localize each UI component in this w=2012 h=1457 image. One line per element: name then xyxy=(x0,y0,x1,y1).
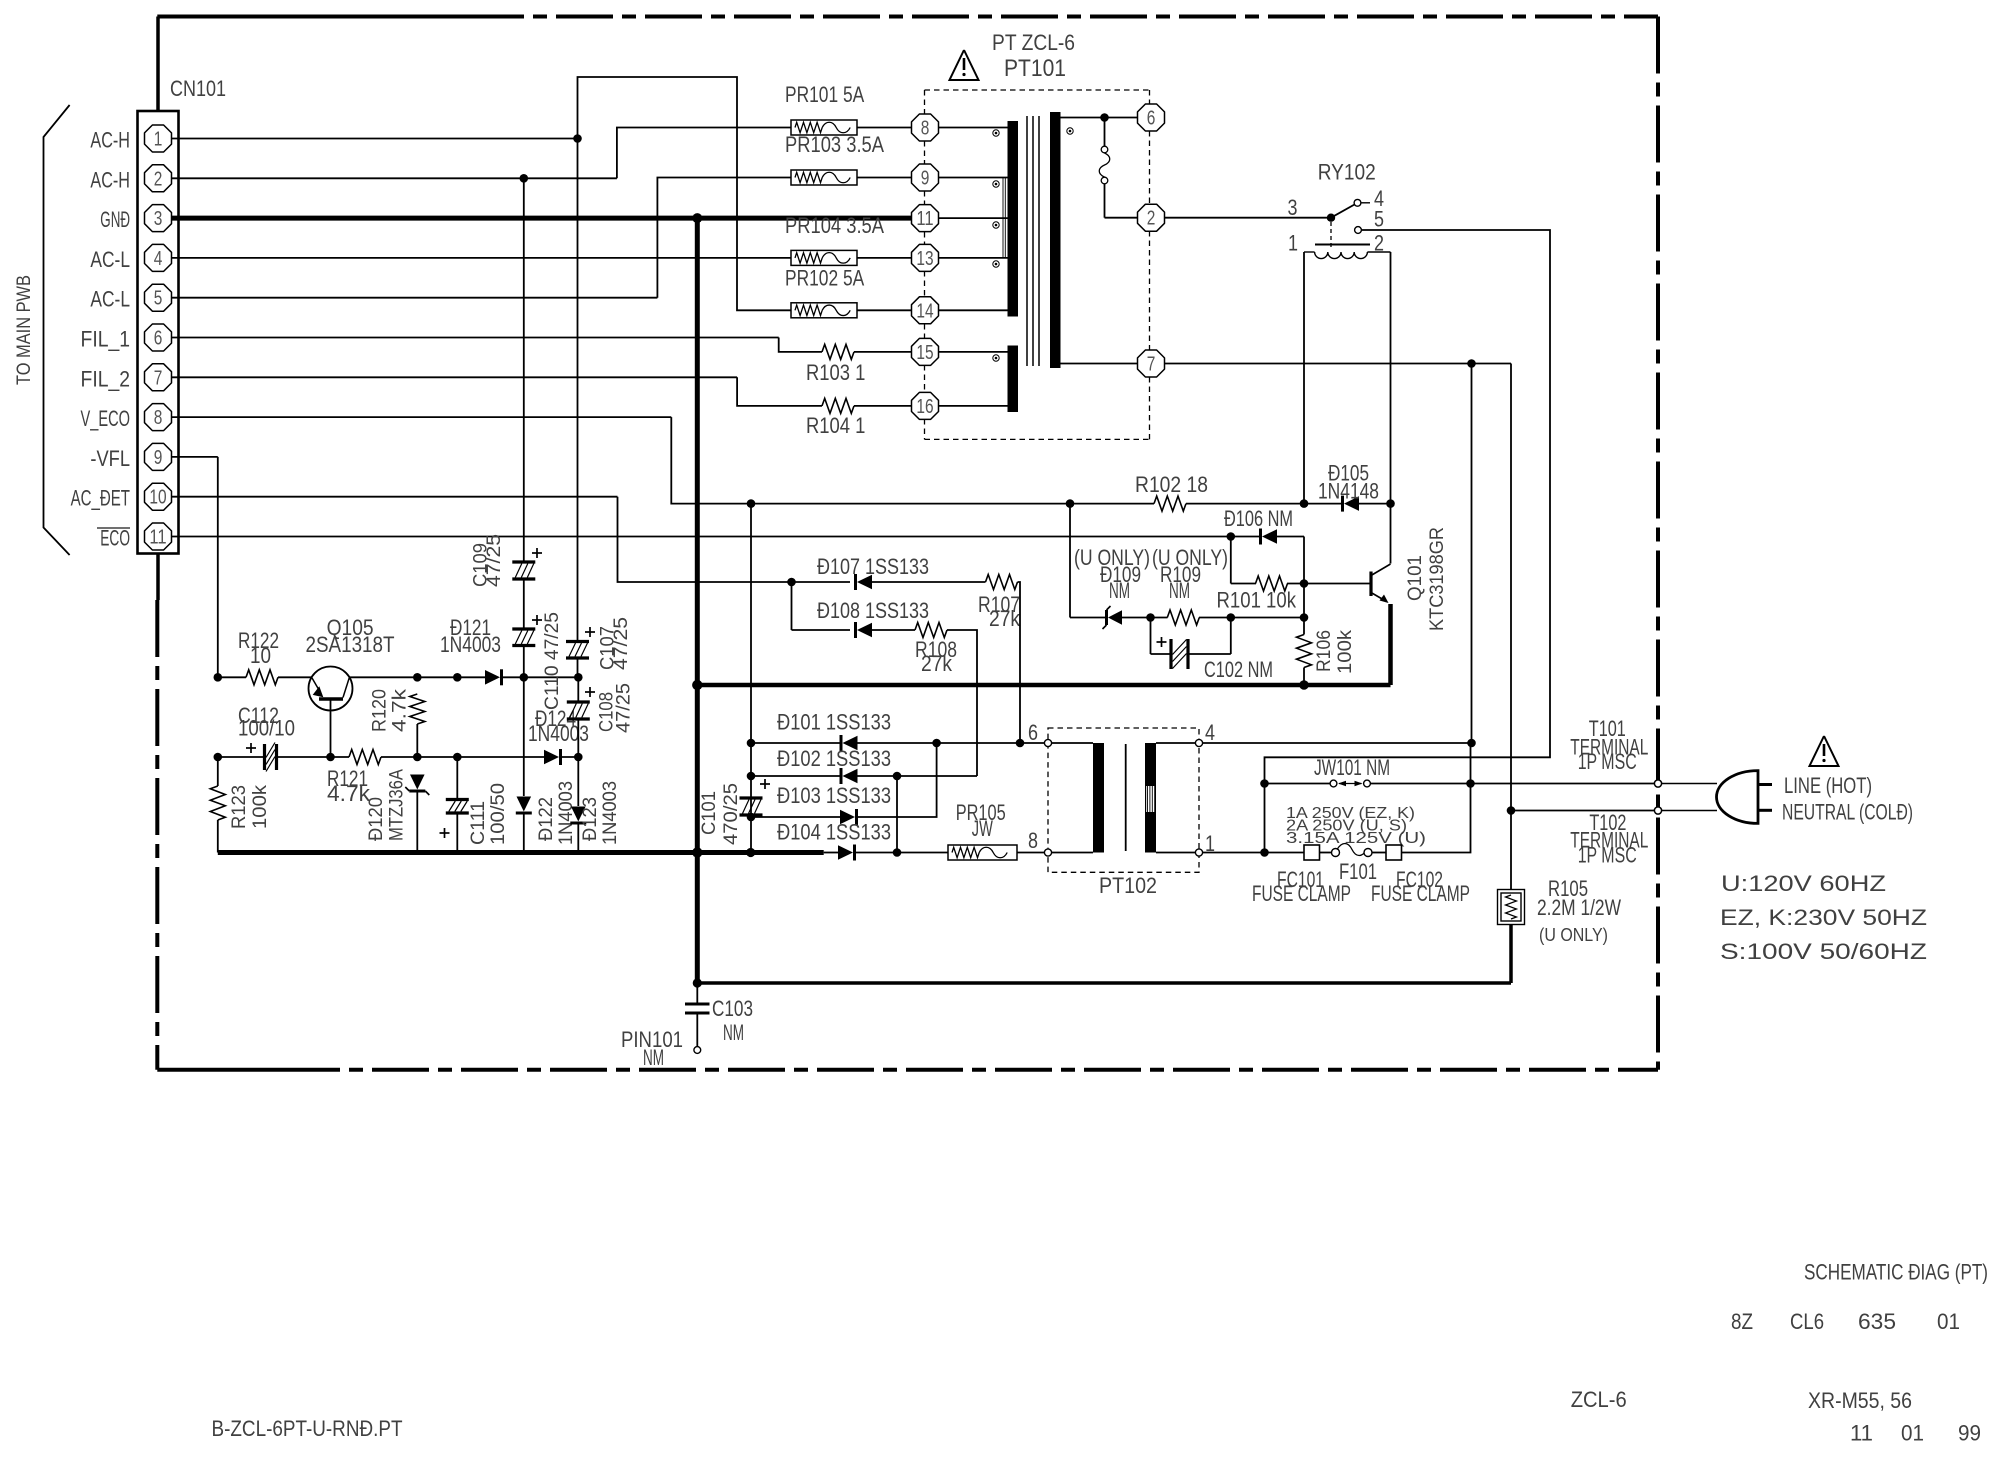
svg-text:1P MSC: 1P MSC xyxy=(1578,843,1637,868)
fuse PR102 5A xyxy=(791,303,857,318)
wire pin10 AC_DET row xyxy=(172,496,618,498)
svg-text:C111: C111 xyxy=(468,801,489,845)
svg-text:Q101: Q101 xyxy=(1405,555,1426,601)
svg-text:27k: 27k xyxy=(921,651,953,676)
CN101 pin 5 AC-L xyxy=(145,284,172,311)
node JW101 right xyxy=(1466,779,1475,788)
svg-text:XR-M55, 56: XR-M55, 56 xyxy=(1808,1388,1912,1413)
wire D104 up to D102 row xyxy=(896,776,898,853)
svg-text:V_ECO: V_ECO xyxy=(81,406,131,431)
svg-text:C110 47/25: C110 47/25 xyxy=(542,612,563,710)
wire pin8 V_ECO row xyxy=(172,416,672,418)
resistor R103 1 xyxy=(822,344,854,359)
wire pin2 AC-H row xyxy=(172,177,617,179)
fuse PR101 5A xyxy=(791,120,857,135)
resistor R105 2.2M 1/2W xyxy=(1510,811,1512,890)
node D105 left xyxy=(1300,499,1309,508)
node D107 tap xyxy=(787,578,796,587)
node base xyxy=(1300,579,1309,588)
svg-text:AC-H: AC-H xyxy=(90,167,130,192)
node D102 row xyxy=(747,772,756,781)
wire R102 row xyxy=(751,503,1154,505)
svg-text:ECO: ECO xyxy=(100,526,130,551)
wire R107 to D101 row xyxy=(1018,582,1021,743)
resistor R123 100k (vertical) xyxy=(210,786,225,820)
relay coil link dashed xyxy=(1330,222,1332,247)
svg-text:C103: C103 xyxy=(712,996,753,1021)
CN101 pin 1 AC-H xyxy=(145,125,172,152)
svg-text:10: 10 xyxy=(250,643,271,668)
relay contact arm to 4 xyxy=(1331,205,1355,218)
resistor R104 1 xyxy=(822,398,854,413)
node D105 right xyxy=(1386,499,1395,508)
svg-text:CL6: CL6 xyxy=(1790,1309,1824,1334)
svg-text:10: 10 xyxy=(149,487,166,509)
relay coil xyxy=(1315,244,1370,246)
svg-text:27k: 27k xyxy=(989,606,1021,631)
CN101 pin 4 AC-L xyxy=(145,244,172,271)
node D101 row xyxy=(747,739,756,748)
resistor R106 100k xyxy=(1297,635,1312,668)
svg-text:3: 3 xyxy=(1288,195,1298,220)
svg-text:100/10: 100/10 xyxy=(238,716,295,741)
svg-text:11: 11 xyxy=(149,527,166,549)
wire T102 row xyxy=(1511,810,1654,812)
wire pin9 vertical to R122/R123 xyxy=(217,457,219,677)
PT102 pin 4 xyxy=(1195,739,1202,746)
wire pin5 AC-L row xyxy=(172,297,658,299)
wire D107 to D108 row xyxy=(791,582,793,630)
svg-text:Đ122: Đ122 xyxy=(536,797,557,841)
svg-text:11: 11 xyxy=(1850,1421,1873,1446)
CN101 pin 8 V_ECO xyxy=(145,404,172,431)
svg-text:6: 6 xyxy=(154,328,163,350)
svg-text:NM: NM xyxy=(1169,578,1190,603)
fuse clamp FC101 xyxy=(1265,852,1305,854)
svg-text:8: 8 xyxy=(1028,828,1038,853)
ground bus mid (thick) xyxy=(697,683,1390,688)
PT101 pin 2 xyxy=(1138,204,1165,231)
svg-text:AC-L: AC-L xyxy=(90,247,130,272)
wire D106 row xyxy=(1227,532,1236,541)
svg-text:5: 5 xyxy=(154,288,163,310)
warning triangle PT101 xyxy=(950,50,979,80)
capacitor C107 47/25 xyxy=(577,139,579,642)
fuse clamp FC102 xyxy=(1386,845,1402,860)
wire pin7 row xyxy=(1061,363,1138,365)
svg-text:3: 3 xyxy=(154,208,163,230)
zener D120 MTZJ36A xyxy=(410,775,425,790)
svg-text:8: 8 xyxy=(154,407,163,429)
PT101 pin 7 xyxy=(1138,350,1165,377)
bracket TO MAIN PWB xyxy=(44,105,70,555)
capacitor C112 100/10 xyxy=(214,753,223,762)
CN101 pin 6 FIL_1 xyxy=(145,324,172,351)
svg-text:2.2M 1/2W: 2.2M 1/2W xyxy=(1537,895,1621,920)
svg-text:Đ120: Đ120 xyxy=(366,797,387,841)
CN101 pin 7 FIL_2 xyxy=(145,364,172,391)
PT101 pin 14 xyxy=(912,297,939,324)
resistor R102 18 xyxy=(1154,496,1186,511)
svg-text:Đ101 1SS133: Đ101 1SS133 xyxy=(777,710,891,735)
diode D105 1N4148 xyxy=(1344,496,1359,511)
svg-text:1: 1 xyxy=(154,129,163,151)
svg-text:Đ106 NM: Đ106 NM xyxy=(1224,506,1293,531)
resistor R120 4.7k (vertical) xyxy=(410,694,425,724)
capacitor C102 NM xyxy=(1150,618,1152,655)
svg-text:GNĐ: GNĐ xyxy=(100,207,130,232)
svg-text:99: 99 xyxy=(1958,1421,1981,1446)
svg-text:AC_ĐET: AC_ĐET xyxy=(71,486,130,511)
svg-text:8: 8 xyxy=(921,118,930,140)
PT101 pin 15 xyxy=(912,338,939,365)
diode D121 1N4003 xyxy=(485,670,500,685)
CN101 pin 9 -VFL xyxy=(145,443,172,470)
wire pin5 dogleg to PR103 xyxy=(657,178,791,298)
PT101 pin 9 xyxy=(912,164,939,191)
svg-text:100k: 100k xyxy=(1335,629,1356,674)
svg-text:7: 7 xyxy=(154,367,163,389)
svg-text:14: 14 xyxy=(916,300,933,322)
svg-text:KTC3198GR: KTC3198GR xyxy=(1427,527,1448,631)
svg-text:470/25: 470/25 xyxy=(721,783,742,845)
service jumper between pin6 and pin2 wire xyxy=(1104,118,1106,147)
svg-text:C102 NM: C102 NM xyxy=(1204,657,1273,682)
svg-text:FUSE CLAMP: FUSE CLAMP xyxy=(1371,881,1470,906)
svg-text:5: 5 xyxy=(1374,207,1384,232)
svg-text:Đ108 1SS133: Đ108 1SS133 xyxy=(817,598,929,623)
capacitor C108 47/25 xyxy=(577,677,579,702)
svg-text:1: 1 xyxy=(1288,231,1298,256)
svg-text:47/25: 47/25 xyxy=(484,534,505,587)
svg-text:EZ, K:230V 50HZ: EZ, K:230V 50HZ xyxy=(1720,905,1927,930)
resistor R121 4.7k xyxy=(331,756,350,758)
PT101 pin 13 xyxy=(912,244,939,271)
svg-text:FIL_1: FIL_1 xyxy=(81,327,131,352)
node JW101 left xyxy=(1260,779,1269,788)
svg-text:R106: R106 xyxy=(1314,630,1335,672)
fuse PR104 3.5A xyxy=(791,250,857,265)
svg-text:B-ZCL-6PT-U-RNĐ.PT: B-ZCL-6PT-U-RNĐ.PT xyxy=(212,1416,403,1441)
wires to plug xyxy=(1662,783,1717,785)
node C103 top xyxy=(693,978,702,987)
wire pin11 ECO row to D106 xyxy=(172,536,1231,538)
relay coil lead 1 xyxy=(1303,252,1305,504)
capacitor C110 47/25 xyxy=(523,579,525,629)
svg-text:6: 6 xyxy=(1028,720,1038,745)
wire D109 branch from R102 node xyxy=(1069,504,1071,618)
fuse PR103 3.5A xyxy=(791,170,857,185)
wire pin6 FIL_1 row xyxy=(172,337,779,339)
fuse F101 xyxy=(1320,852,1332,854)
svg-text:01: 01 xyxy=(1937,1309,1960,1334)
svg-text:LINE (HOT): LINE (HOT) xyxy=(1784,773,1872,798)
wire pin8 dogleg down to R102 row xyxy=(671,417,751,504)
svg-text:PT102: PT102 xyxy=(1099,873,1157,898)
svg-text:S:100V 50/60HZ: S:100V 50/60HZ xyxy=(1720,939,1927,964)
svg-text:JW: JW xyxy=(972,816,993,841)
capacitor C101 470/25 xyxy=(740,796,763,799)
svg-text:01: 01 xyxy=(1901,1421,1924,1446)
svg-text:R101 10k: R101 10k xyxy=(1217,588,1297,613)
svg-text:4: 4 xyxy=(1205,720,1215,745)
diode D123 1N4003 (vertical) xyxy=(577,757,579,806)
diode D102 1SS133 xyxy=(751,775,840,777)
svg-text:2: 2 xyxy=(1147,208,1156,230)
node -VFL/R122 xyxy=(214,673,223,682)
svg-text:ZCL-6: ZCL-6 xyxy=(1571,1387,1627,1412)
CN101 pin 11 ECO xyxy=(145,523,172,550)
phasing marks xyxy=(993,130,999,136)
wire down to T102 row xyxy=(1510,364,1512,811)
svg-text:47/25: 47/25 xyxy=(614,683,635,733)
capacitor C109 47/25 xyxy=(523,178,525,562)
wire D124 row xyxy=(417,756,457,758)
wire right of Q105 xyxy=(349,676,417,678)
diode D106 NM xyxy=(1262,529,1277,544)
wire pin7 dogleg to R104 xyxy=(737,377,822,406)
PT101 pin 11 xyxy=(912,205,939,232)
node R120 top xyxy=(413,673,422,682)
PT102 pin 1 xyxy=(1195,849,1202,856)
wire bottom return xyxy=(697,981,1511,985)
wire pin4 AC-L row to PR104 xyxy=(172,257,791,259)
svg-text:Đ123: Đ123 xyxy=(580,797,601,841)
svg-text:PT ZCL-6: PT ZCL-6 xyxy=(992,30,1075,55)
warning triangle plug xyxy=(1810,736,1839,766)
svg-text:CN101: CN101 xyxy=(170,76,226,101)
svg-text:2SA1318T: 2SA1318T xyxy=(306,632,395,657)
svg-text:U:120V 60HZ: U:120V 60HZ xyxy=(1721,871,1886,896)
wire D106 left down to R101 xyxy=(1230,537,1232,584)
svg-text:R120: R120 xyxy=(370,689,391,732)
svg-text:PT101: PT101 xyxy=(1004,55,1066,82)
svg-text:Đ107 1SS133: Đ107 1SS133 xyxy=(817,554,929,579)
svg-text:47/25: 47/25 xyxy=(611,617,632,670)
terminal T101 xyxy=(1654,780,1661,787)
wire pin2 dogleg to PR101 xyxy=(617,128,791,179)
node R121/R120/D120 xyxy=(413,753,422,762)
svg-text:4: 4 xyxy=(154,248,163,270)
svg-text:NM: NM xyxy=(643,1045,664,1070)
wire pin10 dogleg to D107 xyxy=(618,497,792,582)
svg-text:AC-H: AC-H xyxy=(90,128,130,153)
svg-text:8Z: 8Z xyxy=(1731,1309,1753,1334)
CN101 pin 2 AC-H xyxy=(145,165,172,192)
wire pin9 -VFL row xyxy=(172,456,218,458)
svg-text:NM: NM xyxy=(1109,578,1130,603)
svg-text:JW101 NM: JW101 NM xyxy=(1314,755,1390,780)
wire pin1 dogleg to PR102 xyxy=(578,77,792,310)
svg-text:1N4148: 1N4148 xyxy=(1318,479,1379,504)
capacitor C111 100/50 xyxy=(456,757,458,800)
transformer PT101 dashed outline xyxy=(925,89,1150,91)
svg-text:3.15A 125V (U): 3.15A 125V (U) xyxy=(1286,830,1426,847)
svg-text:635: 635 xyxy=(1858,1309,1896,1334)
fuse PR105 JW xyxy=(948,845,1017,860)
wire PT102 pin1 to fuse node xyxy=(1203,852,1265,854)
PT101 pin 6 xyxy=(1138,104,1165,131)
terminal T102 xyxy=(1654,807,1661,814)
ground bus bottom (thick) xyxy=(218,850,824,855)
PT102 windings xyxy=(1052,742,1093,744)
svg-text:R102 18: R102 18 xyxy=(1135,472,1208,497)
diode D122 1N4003 (vertical) xyxy=(523,677,525,796)
frame: dash-dot border of PT board xyxy=(157,15,467,19)
svg-text:R103 1: R103 1 xyxy=(806,360,865,385)
svg-text:AC-L: AC-L xyxy=(90,287,130,312)
wire pin6 dogleg to R103 xyxy=(779,338,822,352)
PT101 right side wires xyxy=(1061,117,1138,119)
svg-text:6: 6 xyxy=(1147,108,1156,130)
node D103 row xyxy=(747,813,756,822)
svg-text:4.7k: 4.7k xyxy=(327,781,371,806)
svg-text:7: 7 xyxy=(1147,354,1156,376)
svg-text:MTZJ36A: MTZJ36A xyxy=(387,769,408,841)
svg-text:Đ103 1SS133: Đ103 1SS133 xyxy=(777,783,891,808)
wire PT102 pin4 to pin7 net xyxy=(1203,364,1472,744)
wire pin1 AC-H row xyxy=(172,138,578,140)
terminal PIN101 NM xyxy=(694,1047,701,1054)
svg-text:PR102 5A: PR102 5A xyxy=(785,266,864,291)
PT102 pin 6 xyxy=(1044,739,1051,746)
wire R105 down xyxy=(1509,925,1513,984)
svg-text:9: 9 xyxy=(154,447,163,469)
wire GND row (thick) xyxy=(172,216,912,221)
svg-text:RY102: RY102 xyxy=(1318,160,1376,185)
resistor R101 10k xyxy=(1231,583,1256,585)
diode D107 1SS133 xyxy=(792,581,851,583)
capacitor C103 NM xyxy=(696,983,698,1004)
AC plug xyxy=(1717,771,1759,824)
svg-text:R104 1: R104 1 xyxy=(806,413,865,438)
resistor R109 NM xyxy=(1151,617,1168,619)
svg-text:NEUTRAL (COLĐ): NEUTRAL (COLĐ) xyxy=(1782,800,1913,825)
node pin7/PT102-4 branch xyxy=(1467,359,1476,368)
svg-text:100k: 100k xyxy=(250,784,271,829)
PT101 pin 8 xyxy=(912,114,939,141)
transistor Q101 KTC3198GR xyxy=(1390,504,1392,564)
wire R108 to D102 row xyxy=(947,630,977,776)
diode D124 1N4003 xyxy=(544,750,559,765)
svg-text:SCHEMATIC ĐIAG (PT): SCHEMATIC ĐIAG (PT) xyxy=(1804,1260,1988,1285)
svg-text:-VFL: -VFL xyxy=(90,446,130,471)
svg-text:2: 2 xyxy=(154,168,163,190)
PT102 pin 8 xyxy=(1044,849,1051,856)
svg-text:1N4003: 1N4003 xyxy=(528,721,589,746)
node jumper tap xyxy=(1100,113,1109,122)
connector CN101 body xyxy=(156,17,160,112)
svg-text:PR104 3.5A: PR104 3.5A xyxy=(785,213,884,238)
wire D121 row xyxy=(417,676,457,678)
svg-text:FUSE CLAMP: FUSE CLAMP xyxy=(1252,881,1351,906)
CN101 pin 3 GNĐ xyxy=(145,205,172,232)
diode D103 1SS133 xyxy=(751,816,840,818)
wire F101 right up to JW net xyxy=(1402,784,1471,853)
svg-text:(U ONLY): (U ONLY) xyxy=(1539,925,1608,945)
CN101 pin 10 AC_ĐET xyxy=(145,483,172,510)
wire D106 to base node xyxy=(1303,537,1305,584)
relay common node xyxy=(1327,214,1335,222)
PT101 windings xyxy=(939,127,1008,129)
svg-text:100/50: 100/50 xyxy=(488,783,509,845)
resistor R107 27k xyxy=(986,575,1018,590)
PT101 core xyxy=(1026,116,1028,366)
node Q105 base xyxy=(326,753,335,762)
svg-text:1N4003: 1N4003 xyxy=(600,781,621,845)
svg-text:1P MSC: 1P MSC xyxy=(1578,749,1637,774)
resistor R122 10 xyxy=(218,676,246,678)
diode D104 1SS133 xyxy=(824,852,838,854)
svg-text:1N4003: 1N4003 xyxy=(556,781,577,845)
zener D109 NM xyxy=(1070,617,1108,619)
svg-text:NM: NM xyxy=(723,1020,744,1045)
svg-text:15: 15 xyxy=(916,342,933,364)
wire pin2 to relay xyxy=(1164,217,1331,219)
diode D108 1SS133 xyxy=(792,629,851,631)
ground thick vertical from GND row xyxy=(692,213,702,223)
diode D101 1SS133 xyxy=(751,742,840,744)
PT101 pin 16 xyxy=(912,392,939,419)
svg-text:Đ102 1SS133: Đ102 1SS133 xyxy=(777,746,891,771)
svg-text:9: 9 xyxy=(921,168,930,190)
svg-text:C101: C101 xyxy=(699,791,720,835)
node pin1/C107 branch xyxy=(573,134,582,143)
node pin2/C109 branch xyxy=(520,174,529,183)
resistor R108 27k xyxy=(915,623,947,638)
svg-text:FIL_2: FIL_2 xyxy=(81,366,131,391)
relay coil lead 2 xyxy=(1390,252,1392,504)
svg-text:4.7k: 4.7k xyxy=(390,688,411,732)
svg-text:R123: R123 xyxy=(229,785,250,829)
svg-text:1N4003: 1N4003 xyxy=(440,632,501,657)
svg-text:16: 16 xyxy=(916,396,933,418)
wire D103 to D101 row xyxy=(855,743,937,817)
wire contact5 to fuse node xyxy=(1265,230,1551,784)
svg-text:PR101 5A: PR101 5A xyxy=(785,82,864,107)
svg-text:PR103 3.5A: PR103 3.5A xyxy=(785,132,884,157)
svg-text:11: 11 xyxy=(916,208,933,230)
svg-text:Đ104 1SS133: Đ104 1SS133 xyxy=(777,820,891,845)
wire pin7 FIL_2 row xyxy=(172,376,737,378)
svg-text:13: 13 xyxy=(916,248,933,270)
bridge node vertical xyxy=(750,504,752,853)
relay contact 5 xyxy=(1355,227,1362,234)
svg-text:TO MAIN PWB: TO MAIN PWB xyxy=(14,275,35,385)
line filter PT102 dashed outline xyxy=(1048,728,1199,872)
